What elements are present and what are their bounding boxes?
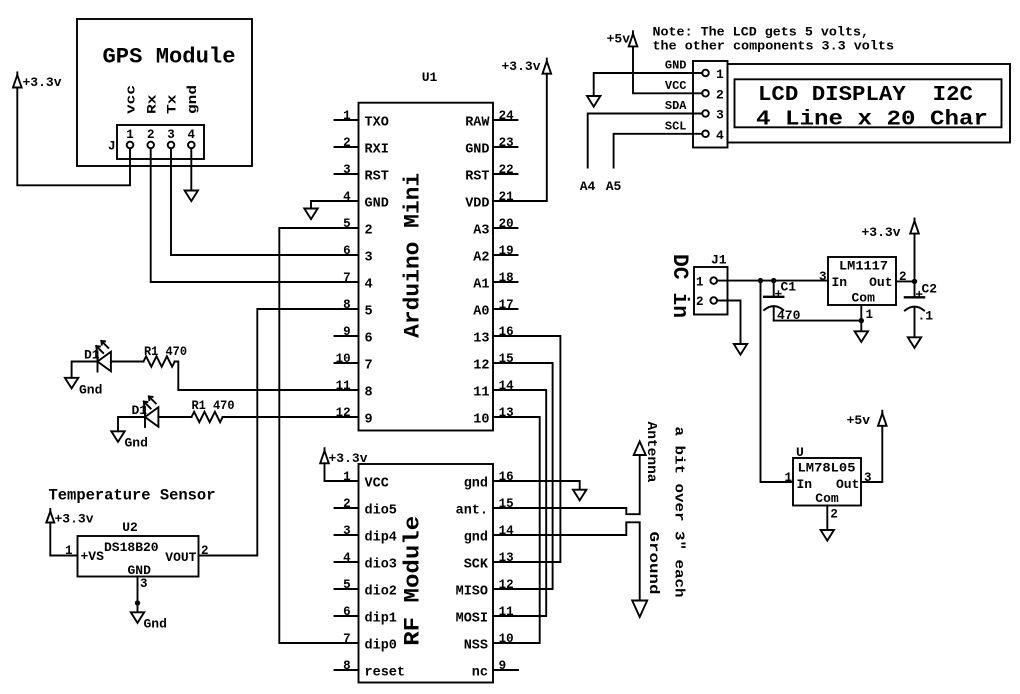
- svg-text:VCC: VCC: [665, 79, 687, 93]
- ground arrow symbol (counterpoise): [632, 601, 647, 618]
- LCD connector pin 2 (VCC): [702, 90, 709, 97]
- svg-text:1: 1: [716, 67, 724, 82]
- U1 pin 15 stub (12): [493, 362, 518, 364]
- power +5v symbol (LCD): [629, 34, 638, 47]
- RF pin 8 stub (reset): [335, 669, 359, 671]
- svg-text:6: 6: [343, 244, 351, 258]
- svg-text:dip4: dip4: [365, 530, 397, 545]
- svg-text:+5v: +5v: [847, 413, 871, 428]
- svg-text:7: 7: [365, 358, 373, 373]
- U1 pin 14 stub (11): [493, 389, 518, 391]
- GPS connector J body: [117, 125, 204, 159]
- svg-text:4: 4: [188, 128, 196, 142]
- svg-text:3: 3: [716, 108, 724, 123]
- svg-text:+VS: +VS: [81, 549, 105, 564]
- wire LCD SCL pin 4 to A5: [614, 134, 703, 168]
- wire RF VCC pin 1 to +3.3v: [325, 463, 359, 481]
- svg-text:U2: U2: [122, 520, 138, 535]
- antenna arrow symbol: [634, 442, 646, 456]
- svg-text:RST: RST: [365, 169, 389, 184]
- U1 pin 12 stub (9): [335, 416, 359, 418]
- wire U2 +VS to +3.3v: [50, 523, 77, 556]
- U1 pin 8 stub (5): [335, 308, 359, 310]
- svg-text:Out: Out: [869, 275, 892, 290]
- svg-text:A3: A3: [473, 223, 489, 238]
- svg-text:GND: GND: [128, 563, 152, 578]
- wire GPS Tx to U1 pin 6: [171, 148, 335, 255]
- wire C1 bottom to LM1117 Com: [774, 320, 862, 322]
- svg-text:GND: GND: [465, 142, 489, 157]
- wire LED D1 cathode to ground: [72, 362, 97, 378]
- svg-text:2: 2: [830, 508, 838, 522]
- svg-text:12: 12: [473, 358, 489, 373]
- U1 pin 2 stub (RXI): [335, 146, 359, 148]
- wire DC in feed to LM78L05 In: [761, 281, 794, 482]
- svg-text:10: 10: [336, 352, 351, 366]
- svg-text:.1: .1: [918, 309, 934, 324]
- power +3.3v symbol (U2): [46, 512, 54, 523]
- LCD DISPLAY inner body: [735, 79, 1002, 127]
- svg-text:DS18B20: DS18B20: [104, 540, 159, 555]
- svg-text:9: 9: [343, 325, 351, 339]
- svg-text:1: 1: [343, 109, 351, 123]
- U1 pin 11 stub (8): [335, 389, 359, 391]
- svg-text:In: In: [797, 477, 813, 492]
- U1 pin 3 stub (RST): [335, 173, 359, 175]
- power +3.3v symbol (U1 VDD): [543, 61, 552, 73]
- svg-text:1: 1: [126, 128, 134, 142]
- svg-text:A0: A0: [473, 304, 489, 319]
- svg-text:3: 3: [343, 524, 351, 538]
- svg-text:C2: C2: [922, 282, 938, 297]
- LCD connector pin 1 (GND): [702, 70, 709, 77]
- U1 pin 7 stub (4): [335, 281, 359, 283]
- svg-text:1: 1: [866, 308, 874, 322]
- svg-text:A1: A1: [473, 277, 489, 292]
- svg-text:dip0: dip0: [365, 638, 397, 653]
- svg-text:SCK: SCK: [464, 557, 489, 572]
- svg-text:the other components 3.3 volts: the other components 3.3 volts: [653, 39, 895, 54]
- svg-text:C1: C1: [781, 279, 797, 294]
- svg-text:10: 10: [473, 412, 489, 427]
- LED D1 (bottom): [144, 407, 146, 427]
- U1 pin 21 stub (VDD): [493, 200, 518, 202]
- wire RF gnd pin 16 to ground: [493, 481, 580, 490]
- wire LCD GND pin 1 to ground: [594, 73, 703, 96]
- svg-text:nc: nc: [472, 665, 488, 680]
- svg-text:15: 15: [499, 352, 514, 366]
- svg-text:Out: Out: [836, 477, 859, 492]
- ground (C2): [908, 337, 921, 348]
- svg-text:+3.3v: +3.3v: [23, 75, 62, 90]
- svg-text:Gnd: Gnd: [144, 617, 167, 632]
- svg-text:D1: D1: [84, 347, 100, 362]
- power +3.3v symbol (LM1117 Out): [910, 221, 919, 234]
- svg-text:dio2: dio2: [365, 584, 397, 599]
- LCD connector body: [693, 61, 728, 148]
- U1 pin 1 stub (TXO): [335, 119, 359, 121]
- svg-text:3: 3: [819, 270, 827, 284]
- svg-text:R1 470: R1 470: [144, 344, 187, 359]
- svg-text:RST: RST: [465, 169, 489, 184]
- wire U1 pin 15 (12) to RF MISO: [493, 363, 553, 589]
- wire LED D1 bottom to resistor: [158, 416, 191, 418]
- svg-text:23: 23: [499, 136, 514, 150]
- U1 pin 6 stub (3): [335, 254, 359, 256]
- svg-text:8: 8: [343, 659, 351, 673]
- wire U1 pin 16 (13) to RF SCK: [493, 336, 560, 562]
- svg-text:Temperature Sensor: Temperature Sensor: [49, 487, 216, 505]
- svg-text:GND: GND: [665, 59, 687, 73]
- wire LM78L05 Out to +5v: [861, 426, 882, 482]
- svg-text:5: 5: [365, 304, 373, 319]
- svg-text:LCD DISPLAY I2C: LCD DISPLAY I2C: [758, 84, 973, 107]
- svg-text:A4: A4: [580, 179, 596, 194]
- resistor R1 470 (top): [144, 356, 175, 366]
- U1 pin 5 stub (2): [335, 227, 359, 229]
- svg-text:2: 2: [716, 87, 724, 102]
- svg-text:VDD: VDD: [465, 196, 489, 211]
- svg-text:NSS: NSS: [464, 638, 488, 653]
- svg-text:MOSI: MOSI: [456, 611, 488, 626]
- svg-text:RAW: RAW: [465, 115, 490, 130]
- svg-text:8: 8: [365, 385, 373, 400]
- wire RF gnd pin 14 to ground arrow: [493, 522, 640, 600]
- svg-text:GPS Module: GPS Module: [103, 45, 236, 70]
- svg-text:dio3: dio3: [365, 557, 397, 572]
- svg-text:9: 9: [365, 412, 373, 427]
- svg-text:SCL: SCL: [665, 119, 687, 133]
- U1 pin 18 stub (A1): [493, 281, 518, 283]
- svg-text:VOUT: VOUT: [165, 550, 196, 565]
- svg-text:3: 3: [140, 577, 148, 591]
- ground (U2): [131, 612, 144, 623]
- svg-text:gnd: gnd: [185, 85, 200, 114]
- svg-text:+3.3v: +3.3v: [501, 59, 540, 74]
- wire U1 pin 14 (11) to RF MOSI: [493, 390, 546, 616]
- svg-text:Antenna: Antenna: [643, 422, 659, 484]
- capacitor C1: [773, 281, 775, 297]
- wire U2 GND to ground: [137, 577, 139, 613]
- RF pin 5 stub (dio2): [335, 588, 359, 590]
- svg-text:4: 4: [716, 128, 724, 143]
- ground (GPS): [185, 191, 198, 202]
- junction Out node: [912, 279, 917, 284]
- svg-text:RF Module: RF Module: [400, 516, 426, 646]
- wire U1 pin 13 (10) to RF NSS: [493, 417, 540, 643]
- wire LED D1 bottom cathode to ground: [118, 417, 144, 431]
- svg-text:2: 2: [365, 223, 373, 238]
- svg-text:3: 3: [343, 163, 351, 177]
- svg-text:Com: Com: [815, 491, 839, 506]
- wire LCD SDA pin 3 to A4: [588, 114, 703, 168]
- svg-text:+5v: +5v: [607, 32, 631, 47]
- svg-text:14: 14: [499, 379, 515, 393]
- svg-text:Gnd: Gnd: [125, 436, 148, 451]
- svg-text:J: J: [108, 140, 116, 154]
- wire LM1117 Out to +3.3v and C2: [896, 280, 915, 282]
- svg-text:Com: Com: [852, 291, 876, 306]
- svg-text:2: 2: [147, 128, 155, 142]
- svg-text:17: 17: [499, 298, 514, 312]
- U1 pin 22 stub (RST): [493, 173, 518, 175]
- svg-text:4 Line x 20 Char: 4 Line x 20 Char: [756, 109, 988, 132]
- junction C1 top: [771, 278, 776, 283]
- svg-text:dip1: dip1: [365, 611, 397, 626]
- svg-text:19: 19: [499, 244, 514, 258]
- connector J1 body: [694, 267, 728, 315]
- svg-text:R1 470: R1 470: [192, 398, 235, 413]
- svg-text:12: 12: [336, 406, 351, 420]
- wire U1 pin 5 (2) to RF dip0: [279, 228, 358, 643]
- svg-text:24: 24: [499, 109, 515, 123]
- svg-text:Note: The LCD gets 5 volts,: Note: The LCD gets 5 volts,: [653, 25, 870, 40]
- svg-text:dio5: dio5: [365, 503, 397, 518]
- wire LCD VCC pin 2 to +5v: [633, 46, 702, 93]
- svg-text:16: 16: [499, 325, 514, 339]
- svg-text:MISO: MISO: [456, 584, 488, 599]
- junction Com/C1: [859, 318, 864, 323]
- wire U1 GND pin 4 to ground: [311, 201, 335, 209]
- svg-text:3: 3: [365, 250, 373, 265]
- svg-text:21: 21: [499, 190, 514, 204]
- svg-text:8: 8: [343, 298, 351, 312]
- svg-text:Gnd: Gnd: [79, 383, 102, 398]
- wire J1 pin 1 to LM1117 In: [717, 280, 828, 282]
- svg-text:11: 11: [473, 385, 489, 400]
- junction U2 ground: [135, 600, 140, 605]
- LCD connector pin 3 (SDA): [702, 110, 709, 117]
- ground (U1 pin 4): [304, 209, 317, 220]
- wire LED D1 to resistor R1: [111, 361, 144, 363]
- svg-text:5: 5: [343, 217, 351, 231]
- svg-text:RXI: RXI: [365, 142, 389, 157]
- IC U2 DS18B20 body: [78, 536, 199, 577]
- svg-text:Tx: Tx: [165, 94, 180, 114]
- ground (RF pin 16): [573, 490, 586, 501]
- svg-text:reset: reset: [365, 665, 406, 680]
- svg-text:1: 1: [696, 275, 704, 289]
- IC LM1117 body: [828, 257, 896, 305]
- RF pin 2 stub (dio5): [335, 507, 359, 509]
- svg-text:5: 5: [343, 578, 351, 592]
- U1 pin 13 stub (10): [493, 416, 518, 418]
- wire LM1117 Com to ground: [860, 305, 862, 331]
- svg-text:1: 1: [784, 471, 792, 485]
- U1 pin 10 stub (7): [335, 362, 359, 364]
- power +3.3v symbol (RF VCC): [320, 451, 329, 464]
- svg-text:VCC: VCC: [365, 476, 389, 491]
- svg-text:7: 7: [343, 271, 351, 285]
- svg-text:vcc: vcc: [124, 85, 139, 114]
- svg-text:gnd: gnd: [464, 530, 488, 545]
- RF pin 4 stub (dio3): [335, 561, 359, 563]
- svg-text:2: 2: [343, 497, 351, 511]
- svg-text:22: 22: [499, 163, 514, 177]
- U1 pin 24 stub (RAW): [493, 119, 518, 121]
- junction J1 feed: [758, 278, 763, 283]
- svg-text:+3.3v: +3.3v: [861, 225, 900, 240]
- svg-text:Arduino Mini: Arduino Mini: [400, 173, 426, 338]
- ground (LCD): [587, 96, 600, 107]
- U1 pin 19 stub (A2): [493, 254, 518, 256]
- IC U1 Arduino Mini body: [359, 103, 494, 431]
- svg-text:6: 6: [365, 331, 373, 346]
- IC RF Module body: [359, 464, 494, 683]
- wire GPS Rx to U1 pin 7: [151, 148, 335, 282]
- wire U1 VDD pin 21 to +3.3v: [518, 74, 547, 201]
- svg-text:TXO: TXO: [365, 115, 389, 130]
- ground (J1 pin 2): [734, 344, 747, 355]
- power +5v symbol (LM78L05): [878, 413, 887, 426]
- wire RF ant pin 15 to antenna: [493, 455, 640, 514]
- svg-text:+3.3v: +3.3v: [55, 511, 94, 526]
- svg-text:GND: GND: [365, 196, 389, 211]
- svg-text:18: 18: [499, 271, 514, 285]
- LCD DISPLAY outer body: [728, 64, 1011, 143]
- svg-text:a bit over 3" each: a bit over 3" each: [671, 427, 687, 598]
- ground (LED D1 bottom): [111, 431, 124, 442]
- wire R1 to U1 pin 11 (8): [175, 362, 335, 391]
- svg-text:9: 9: [499, 659, 507, 673]
- svg-text:J1: J1: [711, 253, 727, 268]
- wire LM78L05 Com to ground: [826, 506, 828, 531]
- svg-text:13: 13: [499, 406, 514, 420]
- svg-text:LM78L05: LM78L05: [798, 461, 856, 476]
- svg-text:4: 4: [343, 190, 351, 204]
- svg-text:DC in: DC in: [667, 254, 692, 318]
- svg-text:20: 20: [499, 217, 514, 231]
- wire U2 VOUT to U1 pin 8 (5): [199, 309, 335, 556]
- svg-text:Rx: Rx: [144, 94, 159, 114]
- wire GPS vcc to +3.3v: [17, 88, 130, 186]
- LCD connector pin 4 (SCL): [702, 131, 709, 138]
- svg-text:Ground: Ground: [645, 532, 661, 595]
- svg-text:3: 3: [167, 128, 175, 142]
- svg-text:A5: A5: [606, 179, 622, 194]
- power +3.3v symbol (GPS): [13, 75, 22, 88]
- LED D1 (top): [97, 352, 99, 372]
- IC LM78L05 body: [793, 458, 861, 506]
- wire GPS gnd pin to ground: [190, 148, 192, 190]
- svg-text:6: 6: [343, 605, 351, 619]
- svg-text:11: 11: [336, 379, 351, 393]
- svg-text:A2: A2: [473, 250, 489, 265]
- U1 pin 4 stub (GND): [335, 200, 359, 202]
- ground (LED D1 top): [65, 378, 78, 389]
- ground (LM78L05): [821, 530, 834, 541]
- wire J1 pin 2 to ground: [717, 301, 741, 345]
- svg-text:In: In: [832, 275, 848, 290]
- wire R1 bottom to U1 pin 12 (9): [223, 416, 335, 418]
- RF pin 3 stub (dip4): [335, 534, 359, 536]
- svg-text:SDA: SDA: [665, 99, 687, 113]
- svg-text:2: 2: [343, 136, 351, 150]
- svg-text:2: 2: [696, 295, 704, 309]
- U1 pin 17 stub (A0): [493, 308, 518, 310]
- U1 pin 20 stub (A3): [493, 227, 518, 229]
- svg-text:13: 13: [473, 331, 489, 346]
- svg-text:+3.3v: +3.3v: [329, 451, 368, 466]
- svg-text:U1: U1: [422, 70, 438, 85]
- ground (LM1117 Com): [855, 331, 868, 342]
- svg-text:D1: D1: [132, 403, 148, 418]
- U1 pin 9 stub (6): [335, 335, 359, 337]
- svg-text:4: 4: [365, 277, 373, 292]
- capacitor C2: [914, 281, 916, 297]
- resistor R1 470 (bottom): [192, 412, 223, 422]
- RF pin 9 stub (nc): [493, 669, 518, 671]
- svg-text:LM1117: LM1117: [839, 259, 888, 274]
- U1 pin 16 stub (13): [493, 335, 518, 337]
- U1 pin 23 stub (GND): [493, 146, 518, 148]
- svg-text:4: 4: [343, 551, 351, 565]
- RF pin 6 stub (dip1): [335, 615, 359, 617]
- GPS Module body: [77, 19, 252, 166]
- svg-text:ant.: ant.: [456, 503, 488, 518]
- svg-text:gnd: gnd: [464, 476, 488, 491]
